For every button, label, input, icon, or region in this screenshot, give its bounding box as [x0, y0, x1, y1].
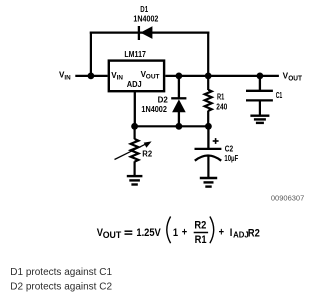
svg-text:240: 240	[216, 102, 227, 111]
wire input riser	[90, 32, 92, 76]
resistor R2 (variable)	[115, 126, 152, 176]
svg-text:+: +	[219, 227, 224, 239]
node R1 top	[205, 73, 212, 80]
wire VIN terminal to regulator input	[75, 75, 107, 77]
svg-text:OUT: OUT	[146, 74, 160, 81]
svg-text:R2: R2	[142, 149, 152, 158]
svg-text:ADJ: ADJ	[233, 231, 249, 240]
ground (below R2)	[127, 176, 143, 184]
svg-text:ADJ: ADJ	[127, 80, 142, 89]
svg-text:+: +	[182, 227, 187, 239]
capacitor C2	[195, 126, 222, 178]
svg-text:1N4002: 1N4002	[141, 104, 167, 114]
capacitor C1	[246, 76, 273, 116]
svg-text:C2: C2	[225, 145, 234, 154]
node C1 top	[257, 73, 264, 80]
regulator U1 LM117 box	[109, 50, 164, 91]
node D2 bottom	[176, 123, 183, 130]
svg-text:OUT: OUT	[103, 230, 122, 240]
svg-text:D1: D1	[140, 5, 148, 14]
node C2 top	[205, 123, 212, 130]
svg-text:00906307: 00906307	[271, 194, 304, 203]
diode D1	[139, 26, 153, 40]
node input junction	[88, 73, 95, 80]
wire output rail	[165, 75, 279, 77]
node D2 top	[176, 73, 183, 80]
wire top rail	[90, 31, 210, 33]
svg-text:R2: R2	[194, 220, 206, 232]
svg-text:1.25V: 1.25V	[136, 227, 160, 239]
diode D2	[171, 76, 186, 126]
svg-text:OUT: OUT	[288, 76, 302, 83]
svg-text:I: I	[230, 227, 233, 239]
resistor R1	[205, 76, 212, 126]
svg-text:R1: R1	[195, 234, 207, 246]
node VIN terminal label	[59, 70, 71, 81]
svg-text:C1: C1	[276, 91, 283, 100]
wire output riser	[207, 32, 209, 76]
svg-text:D2 protects against C2: D2 protects against C2	[10, 282, 112, 293]
svg-text:IN: IN	[64, 75, 71, 82]
svg-text:D1 protects against C1: D1 protects against C1	[10, 267, 112, 278]
svg-text:IN: IN	[117, 75, 124, 82]
svg-text:10μF: 10μF	[224, 154, 238, 163]
wire ADJ pin	[134, 91, 136, 126]
node VOUT terminal label	[283, 72, 303, 83]
node ADJ junction	[131, 123, 138, 130]
svg-text:R2: R2	[248, 228, 260, 240]
svg-text:1: 1	[173, 227, 178, 239]
svg-text:LM117: LM117	[124, 50, 146, 59]
svg-text:1N4002: 1N4002	[133, 14, 158, 24]
svg-text:D2: D2	[158, 95, 169, 104]
ground (below C2)	[200, 178, 217, 187]
wire ADJ row	[135, 125, 209, 127]
formula VOUT = 1.25V (1 + R2/R1) + IADJ R2	[97, 217, 260, 247]
svg-text:R1: R1	[217, 93, 225, 102]
ground (below C1)	[250, 116, 269, 123]
